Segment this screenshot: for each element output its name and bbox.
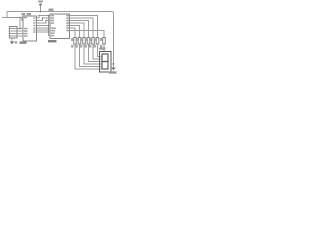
IC U1 box — [23, 16, 37, 41]
wire U2 pin d feed — [49, 22, 51, 24]
wire U1 output jog b — [37, 18, 51, 21]
wire staircase a — [75, 44, 100, 69]
wire dp drop — [103, 44, 105, 52]
ground at display — [109, 64, 117, 74]
display DS1 box — [100, 52, 112, 73]
label U2 — [49, 9, 54, 11]
label U1 — [22, 13, 26, 15]
node crossover dots — [38, 15, 49, 33]
resistor R2 — [76, 38, 81, 48]
wire tie vertical — [49, 16, 51, 36]
wire segment fanout e — [70, 26, 80, 38]
resistor R3 — [80, 38, 85, 48]
wire left drop to U1 — [2, 12, 23, 18]
resistor R7 — [100, 38, 105, 48]
wire staircase b — [80, 44, 100, 67]
switch rungs and wires to U1 — [9, 29, 24, 37]
resistor R1 — [71, 38, 76, 48]
ground under switch — [10, 38, 17, 44]
U2 right pin labels — [66, 15, 69, 32]
wire segment fanout a — [70, 16, 98, 38]
wire segment fanout f — [70, 28, 76, 37]
wire segment fanout b — [70, 18, 94, 37]
resistor R4 — [85, 38, 90, 48]
wire display common pin — [111, 63, 114, 65]
wire U1 output jog c — [37, 21, 51, 24]
wire staircase c — [84, 44, 100, 64]
vcc power symbol — [38, 1, 43, 12]
node left pin junction 2 — [21, 17, 23, 19]
wire segment fanout d — [70, 23, 85, 37]
IC U2 box — [50, 14, 70, 39]
display segment letter marks — [100, 56, 101, 70]
node left pin junction 1 — [19, 17, 21, 19]
wire pull branch — [19, 18, 21, 29]
label DS1 — [99, 48, 106, 50]
wire VCC rail — [7, 12, 114, 65]
display digit 8 — [102, 54, 108, 69]
switch SW1 box — [10, 27, 18, 39]
wire staircase d — [89, 44, 100, 62]
node rail-power junction — [40, 11, 42, 13]
U2 left pin labels — [51, 15, 56, 37]
label U2 part number — [48, 40, 57, 42]
resistor R6 — [94, 38, 99, 48]
wire segment fanout g — [70, 31, 105, 38]
U1 left pin labels — [24, 17, 28, 37]
node common junction — [113, 63, 115, 65]
wire U1 output d to tie — [37, 25, 49, 27]
wire staircase e — [93, 44, 100, 59]
wire U1 output jog a — [37, 16, 51, 19]
wire U1 lower pins — [37, 28, 49, 32]
U1 right pin labels — [33, 17, 35, 32]
wire segment fanout c — [70, 21, 89, 38]
label U1 part number — [20, 42, 27, 44]
node sw junction — [19, 28, 21, 30]
wire second branch — [22, 18, 23, 21]
resistor R5 — [89, 38, 94, 48]
wire staircase f — [98, 44, 100, 57]
